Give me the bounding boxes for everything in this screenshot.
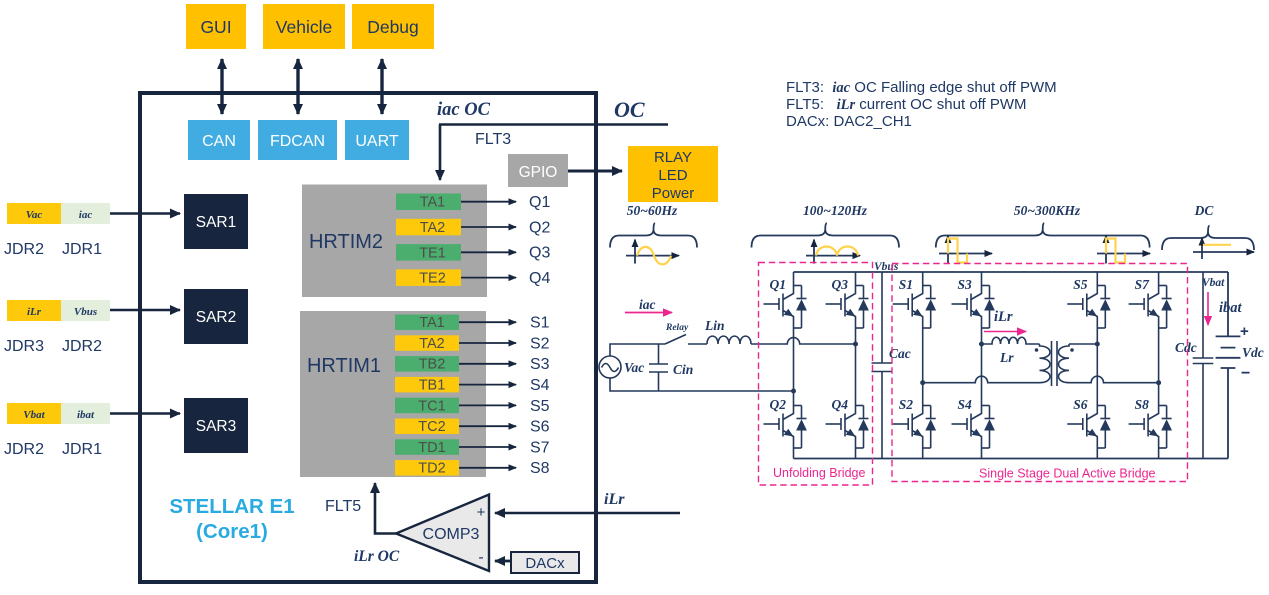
svg-text:TC2: TC2: [418, 419, 445, 435]
wire secondary top: [1069, 343, 1097, 345]
transistor S5 (IGBT with diode): [1067, 272, 1110, 334]
wire to SAR: [110, 309, 180, 312]
wire to SAR: [110, 212, 180, 215]
wire leg x=855.5: [855, 334, 857, 392]
svg-text:+: +: [477, 504, 486, 521]
svg-text:S1: S1: [899, 277, 913, 292]
svg-text:FLT3: FLT3: [475, 131, 511, 148]
svg-text:UART: UART: [355, 133, 398, 150]
svg-text:S7: S7: [530, 439, 550, 456]
op-amp COMP3: [396, 495, 489, 572]
transistor Q2 (IGBT with diode): [764, 392, 807, 454]
waveform icon square right: [1097, 253, 1150, 255]
svg-text:Q2: Q2: [770, 397, 787, 412]
svg-text:S8: S8: [1135, 397, 1150, 412]
svg-text:SAR2: SAR2: [196, 309, 237, 326]
svg-text:GPIO: GPIO: [519, 164, 558, 181]
svg-text:Vac: Vac: [624, 360, 644, 375]
boundary Single Stage Dual Active Bridge: [892, 264, 1188, 482]
wire leg x=1158.6: [1158, 334, 1160, 392]
wire Lr branch: [982, 337, 1040, 344]
svg-text:JDR2: JDR2: [62, 338, 102, 355]
wire leg x=922.7: [922, 334, 924, 392]
wire to S8: [459, 467, 516, 469]
signal label ibat: [61, 403, 110, 424]
svg-text:Q1: Q1: [770, 277, 787, 292]
wire OC horizontal: [439, 123, 668, 125]
waveform icon sine: [626, 255, 679, 257]
svg-text:Q3: Q3: [832, 277, 849, 292]
svg-text:S7: S7: [1135, 277, 1151, 292]
svg-text:JDR3: JDR3: [4, 338, 44, 355]
block HRTIM1: [300, 311, 486, 477]
wire to Q1: [461, 201, 516, 203]
wire to S7: [459, 446, 516, 448]
timer output TA2: [396, 219, 461, 236]
svg-text:−: −: [1241, 365, 1250, 382]
transistor S4 (IGBT with diode): [952, 392, 995, 454]
signal label iac: [61, 203, 110, 224]
block FDCAN: [258, 120, 337, 160]
svg-text:GUI: GUI: [200, 17, 231, 37]
svg-text:DC: DC: [1194, 203, 1215, 218]
svg-text:TA1: TA1: [420, 195, 446, 211]
block SAR1: [184, 194, 248, 249]
svg-text:iac: iac: [79, 209, 93, 221]
wire bottom rail: [794, 458, 1229, 460]
timer output TD1: [395, 439, 459, 455]
svg-text:RLAY: RLAY: [654, 149, 692, 166]
svg-text:TB2: TB2: [419, 357, 446, 373]
node junction (793.5,391): [791, 389, 796, 394]
wire DACx to COMP3 minus: [495, 560, 511, 563]
svg-text:Cin: Cin: [673, 362, 693, 377]
block DACx: [511, 552, 579, 573]
svg-text:S4: S4: [530, 377, 550, 394]
label ibat with arrow: [1207, 292, 1209, 325]
block SAR3: [184, 398, 248, 453]
wire to Q4: [461, 277, 516, 279]
signal label Vac: [7, 203, 61, 224]
svg-text:JDR1: JDR1: [62, 441, 102, 458]
svg-text:CAN: CAN: [202, 133, 236, 150]
wire source bottom: [610, 378, 794, 391]
signal label iLr: [7, 300, 61, 321]
svg-text:S6: S6: [530, 419, 550, 436]
timer output TC1: [395, 398, 459, 414]
brace 50~300KHz: [936, 223, 1150, 248]
block Debug: [352, 4, 434, 49]
svg-text:S1: S1: [530, 315, 550, 332]
svg-text:LED: LED: [658, 167, 687, 184]
timer output TA1: [395, 315, 459, 331]
wire top rail Vbus/DC: [794, 271, 1229, 273]
wire to S3: [459, 363, 516, 365]
transistor S1 (IGBT with diode): [893, 272, 936, 334]
transformer T1: [1040, 341, 1070, 386]
svg-text:iLr: iLr: [604, 491, 625, 508]
block Vehicle: [263, 4, 345, 49]
svg-text:TE1: TE1: [419, 245, 446, 261]
timer output TA2: [395, 335, 459, 351]
svg-text:-: -: [478, 549, 483, 566]
svg-text:SAR3: SAR3: [196, 418, 237, 435]
MCU boundary box STELLAR E1: [140, 93, 596, 582]
wire to Q2: [461, 226, 516, 228]
signal label Vbus: [61, 300, 110, 321]
svg-text:iLr OC: iLr OC: [354, 548, 400, 565]
svg-text:Lr: Lr: [999, 350, 1014, 365]
svg-text:ibat: ibat: [1219, 300, 1243, 316]
svg-text:S6: S6: [1073, 397, 1088, 412]
svg-text:Relay: Relay: [665, 323, 689, 333]
svg-text:S5: S5: [530, 398, 550, 415]
svg-text:Vbus: Vbus: [74, 306, 97, 318]
svg-text:100~120Hz: 100~120Hz: [803, 203, 868, 218]
timer output TB1: [395, 377, 459, 393]
svg-text:50~300KHz: 50~300KHz: [1014, 203, 1081, 218]
transistor Q3 (IGBT with diode): [826, 272, 869, 334]
wire secondary bottom with hop: [1069, 376, 1159, 383]
wire leg x=1097.3: [1096, 334, 1098, 392]
svg-text:S2: S2: [530, 335, 550, 352]
svg-text:S5: S5: [1073, 277, 1088, 292]
svg-text:iLr: iLr: [27, 306, 42, 318]
transistor Q1 (IGBT with diode): [764, 272, 807, 334]
svg-text:Q2: Q2: [529, 219, 550, 236]
svg-text:DACx: DAC2_CH1: DACx: DAC2_CH1: [786, 113, 912, 130]
svg-text:DACx: DACx: [525, 555, 565, 572]
svg-text:FLT5: FLT5: [325, 498, 361, 515]
block SAR2: [184, 289, 248, 344]
svg-text:Vac: Vac: [26, 209, 43, 221]
svg-text:(Core1): (Core1): [196, 520, 268, 543]
svg-text:Q3: Q3: [529, 245, 550, 262]
signal label Vbat: [7, 403, 61, 424]
brace 100~120Hz: [752, 223, 900, 248]
svg-text:S4: S4: [958, 397, 973, 412]
wire source top: [610, 344, 665, 356]
timer output TD2: [395, 460, 459, 476]
svg-text:Vehicle: Vehicle: [276, 17, 332, 37]
waveform icon dc: [1193, 251, 1254, 253]
svg-text:Q4: Q4: [832, 397, 849, 412]
waveform icon rectified sine: [806, 255, 860, 257]
wire to S1: [459, 321, 516, 323]
svg-text:S8: S8: [530, 460, 550, 477]
svg-text:S3: S3: [958, 277, 973, 292]
svg-text:TA2: TA2: [419, 336, 445, 352]
svg-text:JDR1: JDR1: [62, 241, 102, 258]
waveform icon square left: [939, 253, 992, 255]
svg-text:FLT3: iac OC Falling edge shu: FLT3: iac OC Falling edge shut off PWM: [786, 79, 1057, 96]
wire to S2: [459, 342, 516, 344]
wire to S4: [459, 384, 516, 386]
block CAN: [188, 120, 250, 160]
svg-text:Cdc: Cdc: [1175, 340, 1197, 355]
svg-text:FLT5: iLr current OC shut of: FLT5: iLr current OC shut off PWM: [786, 96, 1027, 113]
svg-text:OC: OC: [614, 97, 645, 122]
wire iLr to COMP3 plus: [495, 512, 680, 514]
timer output TE1: [396, 244, 461, 261]
svg-text:Unfolding Bridge: Unfolding Bridge: [773, 466, 865, 480]
inductor Lin: [707, 336, 751, 344]
svg-text:Single Stage Dual Active Bridg: Single Stage Dual Active Bridge: [979, 467, 1156, 481]
svg-text:TA1: TA1: [419, 315, 445, 331]
svg-text:Vbat: Vbat: [23, 409, 45, 421]
svg-text:FDCAN: FDCAN: [270, 133, 325, 150]
node junction Lr tap: [979, 342, 984, 347]
svg-text:Q1: Q1: [529, 194, 550, 211]
timer output TB2: [395, 356, 459, 372]
wire GPIO to RLAY: [568, 170, 622, 173]
svg-text:Debug: Debug: [367, 17, 419, 37]
block UART: [345, 120, 409, 160]
battery Vdc: [1216, 272, 1241, 459]
transistor S2 (IGBT with diode): [893, 392, 936, 454]
brace DC: [1162, 226, 1254, 251]
source Vac: [599, 356, 621, 378]
svg-text:TC1: TC1: [418, 398, 445, 414]
block HRTIM2: [302, 185, 487, 298]
wire FLT3 drop: [439, 125, 442, 181]
svg-text:TB1: TB1: [419, 378, 446, 394]
transistor Q4 (IGBT with diode): [826, 392, 869, 454]
brace 50~60Hz: [610, 223, 697, 248]
svg-text:TD2: TD2: [418, 461, 445, 477]
svg-text:+: +: [1240, 323, 1249, 340]
wire to Q3: [461, 251, 516, 253]
timer output TE2: [396, 269, 461, 286]
svg-text:50~60Hz: 50~60Hz: [627, 203, 678, 218]
wire to SAR: [110, 412, 180, 415]
svg-text:Q4: Q4: [529, 270, 550, 287]
svg-text:ibat: ibat: [77, 409, 95, 421]
block GPIO: [508, 154, 568, 187]
wire primary bottom with hop: [923, 376, 1040, 383]
boundary Unfolding Bridge: [759, 263, 873, 486]
svg-text:TD1: TD1: [418, 440, 445, 456]
block RLAY LED Power: [628, 146, 718, 202]
svg-text:COMP3: COMP3: [423, 526, 480, 543]
svg-text:iac OC: iac OC: [437, 100, 491, 120]
wire double arrow x=298: [296, 59, 299, 114]
svg-text:TA2: TA2: [420, 220, 446, 236]
node junction (855.5,344): [853, 342, 858, 347]
wire double arrow x=382: [380, 59, 383, 114]
wire Lin to bridge with hop: [751, 338, 856, 344]
timer output TC2: [395, 419, 459, 435]
transistor S7 (IGBT with diode): [1129, 272, 1172, 334]
timer output TA1: [396, 194, 461, 211]
svg-text:iac: iac: [639, 297, 656, 312]
svg-text:SAR1: SAR1: [196, 214, 237, 231]
svg-text:STELLAR E1: STELLAR E1: [169, 495, 294, 518]
wire to S5: [459, 404, 516, 406]
node junction S1/S2 mid: [920, 380, 925, 385]
svg-text:JDR2: JDR2: [4, 241, 44, 258]
wire FLT5 elbow: [375, 483, 396, 534]
transistor S6 (IGBT with diode): [1067, 392, 1110, 454]
svg-text:Lin: Lin: [704, 318, 725, 333]
wire leg x=981.5: [981, 334, 983, 392]
svg-text:JDR2: JDR2: [4, 441, 44, 458]
wire double arrow x=222: [220, 59, 223, 114]
svg-text:S2: S2: [899, 397, 914, 412]
node polarity dots: [1035, 348, 1039, 352]
wire leg x=793.5: [793, 334, 795, 392]
capacitor Cin: [649, 344, 668, 391]
capacitor Cdc: [1193, 272, 1214, 459]
svg-text:S3: S3: [530, 356, 550, 373]
svg-text:Vbat: Vbat: [1202, 277, 1225, 289]
svg-text:Vdc: Vdc: [1242, 345, 1264, 360]
capacitor Cac: [872, 272, 893, 459]
transistor S8 (IGBT with diode): [1129, 392, 1172, 454]
block GUI: [186, 4, 246, 49]
switch Relay: [665, 335, 686, 345]
svg-text:HRTIM1: HRTIM1: [307, 355, 381, 377]
svg-text:HRTIM2: HRTIM2: [309, 231, 383, 253]
wire to S6: [459, 425, 516, 427]
svg-text:TE2: TE2: [419, 271, 446, 287]
svg-text:Power: Power: [652, 185, 695, 202]
svg-text:iLr: iLr: [994, 309, 1013, 325]
transistor S3 (IGBT with diode): [952, 272, 995, 334]
